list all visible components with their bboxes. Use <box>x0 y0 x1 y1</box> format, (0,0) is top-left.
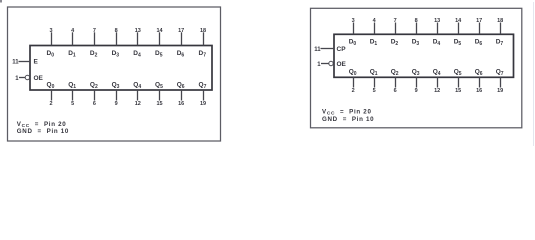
svg-text:Q2: Q2 <box>90 82 98 91</box>
svg-text:12: 12 <box>135 101 141 107</box>
svg-text:D7: D7 <box>199 50 207 59</box>
svg-text:OE: OE <box>34 75 44 82</box>
svg-text:18: 18 <box>497 18 503 24</box>
svg-text:GND = Pin 10: GND = Pin 10 <box>322 116 374 123</box>
svg-text:13: 13 <box>135 28 141 34</box>
svg-text:D2: D2 <box>391 39 399 48</box>
svg-text:D6: D6 <box>177 50 185 59</box>
svg-text:D3: D3 <box>112 50 120 59</box>
svg-text:17: 17 <box>178 28 184 34</box>
svg-text:Q5: Q5 <box>454 69 462 78</box>
svg-text:D1: D1 <box>68 50 76 59</box>
svg-text:19: 19 <box>200 101 206 107</box>
svg-text:9: 9 <box>415 88 418 94</box>
svg-text:Q4: Q4 <box>133 82 141 91</box>
svg-text:D6: D6 <box>475 39 483 48</box>
svg-text:E: E <box>34 58 39 65</box>
svg-text:D4: D4 <box>433 39 441 48</box>
svg-text:1: 1 <box>317 62 321 68</box>
svg-text:6: 6 <box>394 88 397 94</box>
svg-text:9: 9 <box>115 101 118 107</box>
svg-text:3: 3 <box>352 18 355 24</box>
svg-text:16: 16 <box>178 101 184 107</box>
svg-text:OE: OE <box>337 61 347 68</box>
svg-text:Q2: Q2 <box>391 69 399 78</box>
svg-text:GND = Pin 10: GND = Pin 10 <box>17 128 69 135</box>
svg-text:16: 16 <box>476 88 482 94</box>
svg-text:7: 7 <box>93 28 96 34</box>
svg-text:15: 15 <box>455 88 461 94</box>
svg-text:14: 14 <box>455 18 462 24</box>
svg-text:Q5: Q5 <box>155 82 163 91</box>
svg-text:11: 11 <box>314 47 321 53</box>
svg-text:7: 7 <box>394 18 397 24</box>
svg-text:8: 8 <box>415 18 418 24</box>
svg-text:2: 2 <box>352 88 355 94</box>
svg-text:1: 1 <box>15 76 19 82</box>
svg-text:18: 18 <box>200 28 206 34</box>
svg-text:15: 15 <box>156 101 162 107</box>
svg-text:19: 19 <box>497 88 503 94</box>
svg-text:3: 3 <box>49 28 52 34</box>
svg-text:14: 14 <box>156 28 163 34</box>
svg-text:Q1: Q1 <box>370 69 378 78</box>
svg-text:D0: D0 <box>47 50 55 59</box>
svg-text:Q4: Q4 <box>433 69 441 78</box>
svg-text:D5: D5 <box>454 39 462 48</box>
svg-text:11: 11 <box>12 59 19 65</box>
svg-text:17: 17 <box>476 18 482 24</box>
svg-text:6: 6 <box>93 101 96 107</box>
svg-text:Q7: Q7 <box>199 82 207 91</box>
svg-text:5: 5 <box>71 101 74 107</box>
svg-text:Q6: Q6 <box>177 82 185 91</box>
svg-text:Q3: Q3 <box>412 69 420 78</box>
svg-text:4: 4 <box>373 18 377 24</box>
svg-text:Q3: Q3 <box>112 82 120 91</box>
svg-text:13: 13 <box>434 18 440 24</box>
svg-text:D2: D2 <box>90 50 98 59</box>
svg-text:Q0: Q0 <box>349 69 357 78</box>
svg-text:D3: D3 <box>412 39 420 48</box>
svg-text:Q7: Q7 <box>496 69 504 78</box>
svg-text:Q0: Q0 <box>47 82 55 91</box>
svg-text:8: 8 <box>115 28 118 34</box>
svg-text:D5: D5 <box>155 50 163 59</box>
svg-text:CP: CP <box>337 46 347 53</box>
svg-text:12: 12 <box>434 88 440 94</box>
svg-text:4: 4 <box>71 28 75 34</box>
svg-text:Q1: Q1 <box>68 82 76 91</box>
svg-text:D7: D7 <box>496 39 504 48</box>
svg-text:D0: D0 <box>349 39 357 48</box>
svg-text:D4: D4 <box>133 50 141 59</box>
svg-text:5: 5 <box>373 88 376 94</box>
svg-text:Q6: Q6 <box>475 69 483 78</box>
svg-text:2: 2 <box>49 101 52 107</box>
svg-text:D1: D1 <box>370 39 378 48</box>
